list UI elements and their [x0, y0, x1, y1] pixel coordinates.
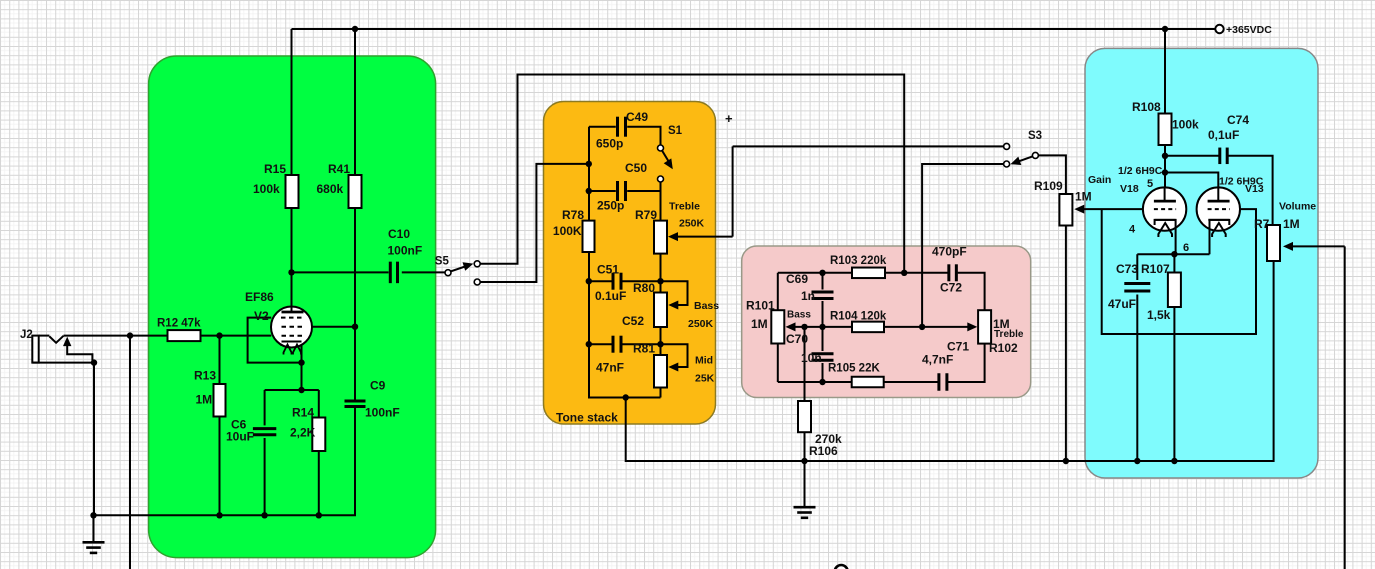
svg-text:1,5k: 1,5k [1147, 308, 1171, 322]
svg-text:Mid: Mid [695, 355, 713, 367]
svg-text:C74: C74 [1227, 113, 1249, 127]
svg-text:25K: 25K [695, 373, 715, 385]
svg-text:R78: R78 [562, 208, 584, 222]
svg-text:R102: R102 [989, 341, 1018, 355]
svg-text:Gain: Gain [1088, 174, 1111, 186]
svg-text:R108: R108 [1132, 100, 1161, 114]
svg-text:C52: C52 [622, 314, 644, 328]
svg-text:4,7nF: 4,7nF [922, 353, 953, 367]
svg-text:6: 6 [1183, 242, 1189, 254]
svg-text:C49: C49 [626, 110, 648, 124]
svg-text:S5: S5 [435, 256, 450, 268]
svg-text:C71: C71 [947, 340, 969, 354]
svg-text:R14: R14 [292, 406, 314, 420]
svg-text:1/2 6H9C: 1/2 6H9C [1118, 165, 1163, 177]
svg-text:C50: C50 [625, 161, 647, 175]
svg-text:R106: R106 [809, 444, 838, 458]
svg-text:100K: 100K [553, 224, 582, 238]
svg-text:470pF: 470pF [932, 245, 967, 259]
svg-text:C73: C73 [1116, 262, 1138, 276]
svg-text:C51: C51 [597, 263, 619, 277]
svg-text:47nF: 47nF [596, 361, 624, 375]
svg-text:+: + [725, 111, 733, 126]
svg-text:Treble: Treble [994, 329, 1024, 340]
svg-text:R103 220k: R103 220k [830, 255, 887, 267]
svg-text:0,1uF: 0,1uF [1208, 128, 1239, 142]
svg-text:R12 47k: R12 47k [157, 318, 201, 330]
svg-text:250p: 250p [597, 199, 624, 213]
svg-text:47uF: 47uF [1108, 297, 1136, 311]
svg-text:C69: C69 [786, 272, 808, 286]
svg-text:680k: 680k [317, 182, 344, 196]
svg-text:J2: J2 [20, 329, 33, 341]
svg-text:C9: C9 [370, 379, 386, 393]
svg-text:1M: 1M [1283, 217, 1300, 231]
svg-text:650p: 650p [596, 137, 623, 151]
svg-text:10uF: 10uF [226, 430, 254, 444]
svg-text:C72: C72 [940, 281, 962, 295]
svg-text:250K: 250K [679, 218, 705, 230]
svg-text:R41: R41 [328, 162, 350, 176]
svg-text:5: 5 [1147, 178, 1153, 190]
svg-text:100nF: 100nF [388, 244, 423, 258]
svg-text:R105 22K: R105 22K [828, 363, 880, 375]
svg-text:250K: 250K [688, 318, 714, 330]
svg-text:C70: C70 [786, 332, 808, 346]
svg-text:R15: R15 [264, 162, 286, 176]
svg-text:+365VDC: +365VDC [1226, 24, 1272, 36]
svg-text:4: 4 [1129, 224, 1136, 236]
svg-text:V2: V2 [254, 309, 269, 323]
svg-text:2,2K: 2,2K [290, 426, 316, 440]
svg-text:Bass: Bass [787, 310, 811, 321]
svg-text:1n: 1n [801, 289, 815, 303]
svg-text:R104 120k: R104 120k [830, 311, 887, 323]
svg-text:C10: C10 [388, 227, 410, 241]
svg-text:S1: S1 [668, 125, 683, 137]
svg-text:V13: V13 [1245, 183, 1264, 195]
svg-text:R109: R109 [1034, 179, 1063, 193]
svg-text:R107: R107 [1141, 262, 1170, 276]
svg-text:1M: 1M [751, 317, 768, 331]
svg-text:R13: R13 [194, 369, 216, 383]
svg-text:R7: R7 [1254, 217, 1270, 231]
svg-text:R101: R101 [746, 299, 775, 313]
svg-text:10n: 10n [801, 351, 822, 365]
svg-text:Treble: Treble [669, 201, 700, 213]
svg-text:100k: 100k [1172, 118, 1199, 132]
svg-text:1M: 1M [196, 393, 213, 407]
svg-text:R81: R81 [633, 342, 655, 356]
svg-text:1M: 1M [1075, 190, 1092, 204]
svg-text:Tone stack: Tone stack [556, 411, 618, 425]
svg-text:EF86: EF86 [245, 290, 274, 304]
svg-text:V18: V18 [1120, 183, 1139, 195]
svg-text:Volume: Volume [1279, 201, 1316, 213]
svg-text:R79: R79 [635, 208, 657, 222]
svg-text:S3: S3 [1028, 130, 1042, 142]
svg-text:R80: R80 [633, 281, 655, 295]
svg-text:100k: 100k [253, 182, 280, 196]
svg-text:Bass: Bass [694, 300, 719, 312]
svg-text:100nF: 100nF [365, 406, 400, 420]
svg-text:0.1uF: 0.1uF [595, 289, 626, 303]
